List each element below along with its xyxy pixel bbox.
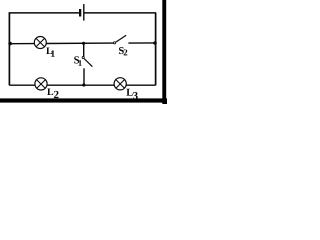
node: junction of middle wire with right wire xyxy=(153,41,157,45)
battery: positive plate (long thin) xyxy=(83,4,84,21)
node: junction of middle wire with left wire xyxy=(8,42,12,46)
battery: negative plate (short thick) xyxy=(79,9,81,17)
lamp L3 xyxy=(114,78,126,90)
wire: middle row, right of switch S2 xyxy=(128,42,155,44)
node: junction of S1 branch with middle wire xyxy=(82,42,85,45)
wire: bottom row, right of lamp L3 xyxy=(126,84,155,86)
label S1 xyxy=(74,56,82,65)
wire: bottom row, between lamp L2 and lamp L3 xyxy=(47,84,114,86)
node: junction of S1 branch with bottom wire xyxy=(82,83,85,86)
switch S2 xyxy=(113,35,126,44)
wire: left vertical xyxy=(8,13,10,86)
wire: right vertical xyxy=(155,13,157,85)
wire: middle row, between lamp L1 and switch S2 xyxy=(46,42,113,44)
wire: S1 branch lower segment xyxy=(83,68,85,85)
wire: bottom row, left of lamp L2 xyxy=(9,84,35,86)
label L3 xyxy=(126,89,137,100)
wire: top right segment from battery xyxy=(85,12,157,14)
lamp L2 xyxy=(35,78,47,90)
switch S1 xyxy=(82,56,92,66)
label S2 xyxy=(119,47,127,55)
label L2 xyxy=(47,88,58,98)
wire: S1 branch upper segment xyxy=(83,43,85,56)
wire: top left segment to battery xyxy=(9,12,80,14)
wire: middle row, left of lamp L1 xyxy=(9,43,34,45)
label L1 xyxy=(46,47,54,56)
lamp L1 xyxy=(34,37,46,49)
